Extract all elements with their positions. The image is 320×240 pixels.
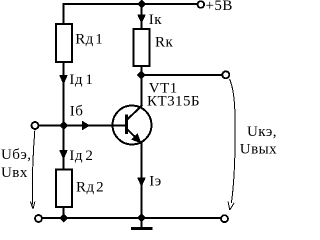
svg-text:Rд2: Rд2	[76, 180, 104, 196]
wire emitter down to ground rail	[141, 143, 143, 218]
svg-text:Iэ: Iэ	[149, 174, 161, 190]
measurement arrow Ube/Uin	[30, 131, 35, 209]
transistor Q1 emitter stroke	[128, 130, 142, 144]
wire Rk bottom to collector node	[141, 67, 143, 76]
ground	[131, 218, 153, 229]
wire top rail from Rd1 top to +5V terminal	[64, 4, 198, 24]
current arrow Ik	[137, 15, 146, 25]
svg-text:Rд1: Rд1	[75, 32, 103, 48]
svg-text:Iк: Iк	[149, 12, 162, 28]
svg-text:Iд2: Iд2	[69, 148, 93, 164]
junction node collector	[137, 71, 146, 80]
junction node emitter bottom	[137, 213, 146, 222]
resistor Rk	[134, 29, 150, 66]
terminal bottom left	[35, 215, 42, 222]
terminal output right	[222, 71, 229, 78]
wire collector node down to transistor	[141, 75, 143, 107]
terminal bottom right	[221, 215, 228, 222]
wire base node down to Rd2	[63, 126, 65, 170]
svg-text:Iб: Iб	[70, 104, 84, 120]
wire collector branch top	[141, 4, 143, 29]
current arrow Ib	[82, 121, 90, 131]
svg-text:Uвых: Uвых	[240, 142, 277, 158]
resistor Rd1	[56, 24, 72, 62]
current arrow Id1	[59, 75, 68, 85]
transistor Q1 collector stroke	[128, 105, 143, 119]
current arrow Ie	[137, 178, 146, 188]
svg-text:Uбэ,: Uбэ,	[1, 147, 31, 163]
svg-text:Iд1: Iд1	[69, 72, 93, 88]
wire Rd2 bottom to ground rail	[63, 207, 65, 218]
wire collector output to right terminal	[141, 74, 222, 76]
svg-text:+5В: +5В	[206, 0, 233, 14]
transistor Q1 base bar	[125, 115, 128, 135]
svg-text:КТ315Б: КТ315Б	[147, 94, 200, 110]
junction node top rail	[137, 0, 146, 9]
terminal +5V	[198, 1, 205, 8]
wire base from left terminal to transistor	[39, 125, 125, 127]
transistor Q1 circle	[113, 106, 152, 145]
resistor Rd2	[56, 170, 72, 208]
measurement arrow Uke/Uout	[228, 79, 235, 210]
current arrow Id2	[59, 150, 68, 160]
transistor Q1 emitter arrowhead	[131, 133, 141, 143]
junction node bottom left	[59, 214, 68, 223]
svg-text:Uвх: Uвх	[1, 165, 28, 181]
wire bottom rail	[42, 217, 221, 219]
junction node base	[59, 121, 68, 130]
svg-text:Rк: Rк	[155, 35, 173, 51]
terminal input left	[32, 122, 39, 129]
wire Rd1 bottom to base node	[63, 63, 65, 126]
svg-text:Uкэ,: Uкэ,	[247, 124, 277, 140]
